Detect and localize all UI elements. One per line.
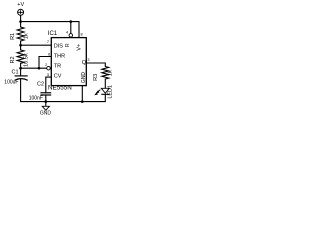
svg-text:Q: Q — [82, 60, 87, 66]
svg-text:R: R — [65, 43, 71, 47]
svg-text:C1: C1 — [11, 70, 18, 76]
svg-text:2: 2 — [45, 63, 47, 67]
svg-text:R2: R2 — [10, 56, 16, 63]
svg-text:10.5k: 10.5k — [24, 53, 30, 67]
svg-text:3: 3 — [87, 58, 89, 62]
svg-text:THR: THR — [54, 54, 65, 60]
svg-text:GND: GND — [40, 111, 52, 117]
svg-text:LED1: LED1 — [108, 85, 114, 99]
svg-text:C2: C2 — [37, 82, 44, 88]
svg-text:GND: GND — [81, 72, 87, 84]
svg-text:8: 8 — [80, 33, 82, 37]
svg-text:R1: R1 — [10, 33, 16, 40]
svg-text:R3: R3 — [93, 74, 99, 81]
svg-text:100uF: 100uF — [4, 80, 18, 86]
svg-text:DIS: DIS — [54, 44, 64, 50]
svg-text:7: 7 — [47, 40, 49, 44]
svg-text:CV: CV — [54, 74, 62, 80]
svg-text:4: 4 — [66, 30, 68, 34]
svg-text:6: 6 — [48, 52, 50, 56]
svg-text:TR: TR — [54, 64, 61, 70]
svg-text:100nF: 100nF — [29, 96, 43, 102]
svg-text:IC1: IC1 — [48, 31, 58, 37]
svg-text:+V: +V — [17, 2, 24, 8]
svg-text:NE555N: NE555N — [48, 85, 72, 92]
svg-text:1k: 1k — [107, 70, 113, 76]
svg-text:5: 5 — [47, 73, 49, 77]
svg-text:1k: 1k — [24, 33, 30, 39]
svg-text:V+: V+ — [76, 44, 82, 51]
